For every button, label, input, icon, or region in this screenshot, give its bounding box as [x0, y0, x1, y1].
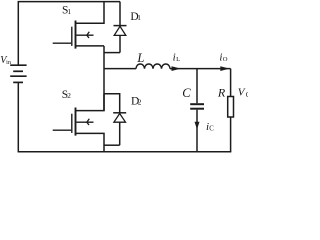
transistor S1 (MOSFET) [53, 21, 94, 49]
wire S2 drain lead [76, 94, 104, 111]
diode D2 [113, 113, 126, 145]
current arrow iL [172, 66, 181, 71]
svg-text:C: C [246, 91, 248, 99]
wire left rail upper [17, 2, 19, 65]
capacitor C plates [190, 104, 204, 109]
wire inductor to output corner [170, 68, 231, 70]
svg-text:O: O [223, 56, 228, 63]
svg-text:in: in [6, 59, 11, 66]
wire S1 drain vertical [76, 2, 104, 24]
svg-text:2: 2 [67, 91, 71, 100]
inductor L [136, 64, 170, 69]
current arrow iC [195, 122, 200, 130]
wire bottom rail [18, 151, 232, 153]
wire left rail lower [17, 82, 19, 151]
svg-text:L: L [176, 56, 180, 63]
svg-text:1: 1 [137, 13, 141, 22]
wire R branch lower [230, 117, 232, 152]
wire R branch upper [230, 69, 232, 97]
wire junction to D2 anode [104, 144, 120, 146]
wire top rail [18, 1, 120, 3]
wire S1 source lead [76, 45, 104, 47]
svg-text:C: C [182, 86, 191, 100]
resistor R body [228, 97, 234, 118]
svg-text:R: R [217, 86, 226, 100]
svg-text:C: C [209, 125, 214, 132]
wire midpoint to inductor [104, 68, 136, 70]
svg-text:2: 2 [138, 98, 142, 107]
wire capacitor branch lower [196, 110, 198, 152]
transistor S2 (MOSFET) [53, 108, 94, 136]
current arrow iO [220, 66, 229, 71]
svg-text:1: 1 [67, 7, 71, 16]
wire branch to D2 cathode [104, 94, 120, 113]
battery Vin plates [10, 65, 26, 82]
wire midpoint vertical [103, 46, 105, 111]
svg-text:V: V [238, 87, 246, 99]
wire capacitor branch upper [196, 69, 198, 104]
wire junction to D1 anode [104, 52, 120, 54]
diode D1 [114, 2, 127, 53]
wire S2 source to D2 anode junction [76, 133, 104, 151]
svg-text:L: L [136, 51, 144, 65]
